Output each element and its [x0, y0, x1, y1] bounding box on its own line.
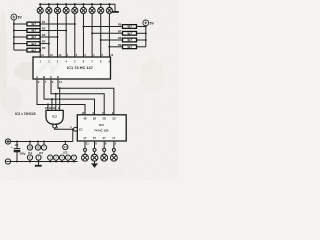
switch S8	[98, 4, 104, 13]
node IC2 supply pins	[35, 142, 43, 162]
wire IC3 output x=94	[94, 141, 96, 154]
wire branch to IC2 gate input	[47, 105, 49, 111]
wire switch S2 to IC1 pin	[48, 14, 50, 57]
switch S6	[80, 4, 86, 13]
wire top common bus	[40, 4, 115, 11]
capacitor C4 100u	[11, 142, 26, 162]
node rail junction x=44	[43, 141, 45, 143]
node IC1 supply pins	[27, 142, 32, 162]
wire R5 to column	[39, 49, 41, 51]
terminal output C	[91, 154, 98, 161]
wire branch to IC2 gate input	[59, 88, 61, 110]
wire switch S6 to IC1 pin	[82, 14, 84, 57]
node small terminal	[112, 148, 115, 151]
terminal output A	[111, 154, 118, 161]
node gate branch junction	[59, 87, 61, 89]
terminal output D	[82, 154, 89, 161]
+5V supply terminal (right)	[143, 20, 155, 26]
wire switch S8 to IC1 pin	[100, 14, 102, 57]
wire R3 to column	[40, 36, 58, 38]
ground (top right bar)	[111, 11, 119, 13]
resistor R6 4k7	[123, 25, 146, 29]
node right rail junction y=40.0	[145, 39, 147, 41]
node R8 junction	[100, 39, 102, 41]
node bus junction x=48.9	[48, 3, 50, 5]
terminal 0V input	[5, 159, 10, 164]
node bus junction x=57.5	[56, 3, 58, 5]
op IC3 74HC125 buffer	[77, 115, 126, 141]
node output/rail junction	[72, 128, 74, 130]
node R4 junction	[48, 43, 50, 45]
node right rail junction y=26.5	[145, 26, 147, 28]
node 0V rail junction x=68.0	[67, 161, 69, 163]
node grounded unused pins	[48, 155, 77, 162]
resistor R4 4k7	[14, 42, 40, 46]
resistor R8 4k7	[123, 38, 146, 42]
node R5 junction	[39, 49, 41, 51]
wire 0V rail (bottom)	[11, 161, 78, 163]
node extra supply pin	[41, 142, 46, 151]
pin bubble IC3 C1 enable	[74, 127, 78, 131]
switch S7	[89, 4, 95, 13]
terminal +5V input	[5, 139, 10, 144]
wire R8 to column	[101, 39, 123, 41]
node gate branch junction	[55, 93, 57, 95]
wire IC1 pin x=58 to IC3 pin x=114	[58, 79, 114, 115]
resistor R9 4k7	[123, 45, 146, 49]
switch S2	[46, 4, 52, 13]
resistor R1 4k7	[14, 22, 40, 26]
switch S3	[54, 4, 60, 13]
wire R7 to column	[92, 32, 122, 34]
node 0V rail junction x=56.1	[55, 161, 57, 163]
wire IC1 pin x=37 to IC3 pin x=85	[37, 79, 85, 115]
node 0V rail junction x=50.2	[49, 161, 51, 163]
node 0V rail junction x=73.9	[73, 161, 75, 163]
node bus junction x=100.8	[100, 3, 102, 5]
switch S5	[72, 4, 78, 13]
wire switch S9 to IC1 pin	[108, 14, 110, 57]
node small terminal	[84, 148, 87, 151]
node rail junction x=30	[29, 141, 31, 143]
wire switch S7 to IC1 pin	[91, 14, 93, 57]
wire R4 to column	[40, 43, 49, 45]
wire branch to IC2 gate input	[51, 99, 53, 110]
node gate branch junction	[47, 104, 49, 106]
node 0V rail junction x=38.5	[38, 161, 40, 163]
wire R9 to column	[109, 46, 122, 48]
node small terminal	[93, 148, 96, 151]
wire to +5V rail	[72, 129, 74, 141]
pin bubble IC2 output	[53, 124, 57, 128]
op IC1 74HC147 priority encoder	[33, 57, 111, 79]
node left rail junction y=37.0	[13, 36, 15, 38]
node bus junction x=40.2	[39, 3, 41, 5]
node bus junction x=83.5	[82, 3, 84, 5]
wire +5V rail (bottom)	[11, 141, 73, 143]
ground (below outputs)	[91, 161, 98, 168]
node gate branch junction	[51, 98, 53, 100]
node rail junction x=38	[37, 141, 39, 143]
node bus junction x=109.4	[108, 3, 110, 5]
wire branch to IC2 gate input	[55, 94, 57, 111]
node right rail junction y=33.3	[145, 32, 147, 34]
terminal output B	[101, 154, 108, 161]
wire R2 to column	[40, 30, 66, 32]
wire IC1 pin x=51 to IC3 pin x=104	[51, 79, 104, 115]
node R3 junction	[57, 36, 59, 38]
wire R6 to column	[83, 26, 122, 28]
+5V supply terminal (left)	[11, 14, 22, 20]
node left rail junction y=24.0	[13, 23, 15, 25]
wire switch S1 to IC1 pin	[39, 14, 41, 57]
node left rail junction y=43.6	[13, 43, 15, 45]
node IC3 supply pin	[63, 142, 68, 155]
resistor R2 4k7	[14, 29, 40, 33]
resistor R5 4k7	[14, 48, 40, 52]
wire IC2 output to IC3 C1	[55, 128, 74, 129]
switch S9	[106, 4, 112, 13]
wire IC1 pin x=44 to IC3 pin x=94	[44, 79, 95, 115]
wire switch S4 to IC1 pin	[65, 14, 67, 57]
wire IC3 output x=85	[84, 141, 86, 154]
wire switch S3 to IC1 pin	[57, 14, 59, 57]
node rail junction x=65	[64, 141, 66, 143]
node 0V rail junction x=30.0	[29, 161, 31, 163]
wire R1 to column	[40, 23, 75, 25]
wire IC3 output x=114	[113, 141, 115, 154]
resistor R7 4k7	[123, 31, 146, 35]
node 0V rail junction x=62.0	[61, 161, 63, 163]
switch S4	[63, 4, 69, 13]
node R1 junction	[74, 23, 76, 25]
node R6 junction	[82, 26, 84, 28]
node bus junction x=74.8	[74, 3, 76, 5]
wire left +5V rail	[13, 20, 15, 50]
node small terminal	[103, 148, 106, 151]
node bus junction x=92.1	[91, 3, 93, 5]
gate IC2a 4-input NAND	[46, 110, 63, 124]
node 0V rail junction x=17.0	[16, 161, 18, 163]
switch S1	[37, 4, 43, 13]
ground (bottom left bar)	[35, 162, 42, 167]
wire IC3 output x=104	[103, 141, 105, 154]
node R7 junction	[91, 32, 93, 34]
node R9 junction	[108, 46, 110, 48]
node R2 junction	[65, 30, 67, 32]
node left rail junction y=30.5	[13, 30, 15, 32]
node rail junction x=17	[16, 141, 18, 143]
node bus junction x=66.2	[65, 3, 67, 5]
wire switch S5 to IC1 pin	[74, 14, 76, 57]
resistor R3 4k7	[14, 35, 40, 39]
wire right +5V rail	[145, 26, 147, 47]
